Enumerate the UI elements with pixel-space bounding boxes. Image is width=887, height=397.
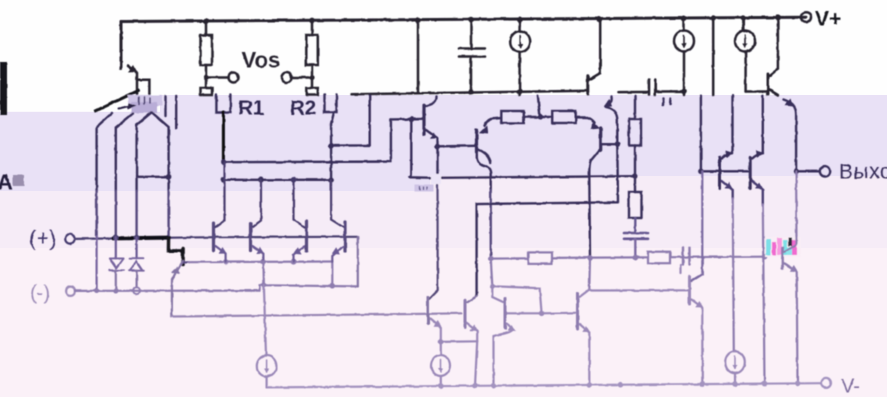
capacitor C1 xyxy=(470,20,473,48)
transistor Tb3 xyxy=(343,222,346,252)
transistor Tg xyxy=(422,105,425,135)
node 541-313 xyxy=(539,311,545,317)
transistor Ti right mirror xyxy=(576,117,595,122)
terminal minus xyxy=(66,287,75,296)
wire hook w1 xyxy=(97,113,112,191)
diode D2 xyxy=(136,238,138,259)
capacitor C3 xyxy=(634,218,636,233)
current source I1 xyxy=(518,19,521,31)
wire hook w3 xyxy=(137,112,152,191)
svg-text:V+: V+ xyxy=(815,8,841,31)
node 492-286 xyxy=(490,284,495,289)
wire second rail xyxy=(352,91,588,95)
transistor Tm-left xyxy=(475,130,478,152)
glitch color block xyxy=(765,237,801,257)
wire hook w2 xyxy=(116,114,133,192)
current source I2 xyxy=(682,18,685,30)
diode D1 xyxy=(115,238,117,259)
node 223-180 xyxy=(221,177,227,183)
node w4-176 xyxy=(166,174,172,180)
svg-text:А: А xyxy=(0,170,13,195)
artifact smudge blob xyxy=(128,95,162,106)
node 634-176 xyxy=(632,173,638,179)
wire hook 490 vertical xyxy=(477,154,491,191)
wire hook w4 xyxy=(153,113,169,191)
resistor Rm2 xyxy=(552,111,576,123)
transistor Q2 (x~600) xyxy=(599,19,602,73)
wire Td collector to Tf base xyxy=(589,290,688,291)
resistor R4 xyxy=(648,252,670,264)
node rail-R1 xyxy=(203,18,209,24)
wire rail-right segment xyxy=(618,91,648,94)
terminal Vos-right xyxy=(282,73,292,83)
node 293-180 xyxy=(291,177,297,183)
node 617-144 xyxy=(615,141,621,147)
node rail-713 xyxy=(710,15,716,21)
svg-text:Выход: Выход xyxy=(839,161,887,184)
node rail-598 xyxy=(596,16,602,22)
wire 589 vertical to Td xyxy=(588,258,591,290)
transistor Te (in glitch) xyxy=(781,248,784,268)
node rail-777 xyxy=(775,15,781,21)
transistor Tc2 xyxy=(492,286,503,302)
node rail-418 xyxy=(415,17,421,23)
node 492-258 xyxy=(488,256,494,262)
wire 617 down to y203 xyxy=(477,144,618,296)
transistor Tbl xyxy=(427,297,430,323)
node plus-w3 xyxy=(134,235,140,241)
wire top rail V+ xyxy=(121,17,806,68)
wire horizontal y162 xyxy=(223,119,391,162)
capacitor C2 remnant ticks xyxy=(662,99,665,105)
transistor Tout2 xyxy=(749,157,752,188)
wire y258 line xyxy=(491,257,765,259)
transistor Ta xyxy=(212,223,215,250)
transistor Q1 top-left xyxy=(128,66,137,94)
wire Tg base line y119 xyxy=(391,118,422,121)
svg-text:V-: V- xyxy=(841,376,860,397)
wire y341 segment xyxy=(441,340,477,343)
wire plus corner down xyxy=(357,237,359,286)
svg-text:(-): (-) xyxy=(30,283,50,305)
wire w1 lower xyxy=(95,236,97,291)
resistor Rv1 xyxy=(634,96,636,119)
terminal V- xyxy=(821,378,831,388)
node 331-146 xyxy=(328,143,334,149)
wire 411 vertical to B xyxy=(410,119,412,177)
terminal Vos-left xyxy=(229,73,239,83)
wire 762 vertical xyxy=(762,96,764,154)
node mirror-mid xyxy=(538,114,544,120)
node Tg-em-146 xyxy=(435,144,441,150)
resistor R1 xyxy=(216,95,230,113)
transistor Td xyxy=(576,294,579,330)
wire minus line xyxy=(75,285,358,291)
transistor Tmid black bar xyxy=(168,238,182,251)
node minus-w2 xyxy=(113,288,118,293)
wire 492 vertical below dot xyxy=(491,259,493,287)
node bus-294 xyxy=(291,259,297,265)
svg-text:R2: R2 xyxy=(290,97,316,120)
node 589-258 xyxy=(587,255,593,261)
node rail-cs3 xyxy=(740,15,746,21)
node rail-cap xyxy=(468,17,474,23)
wire mirror base y146 xyxy=(437,145,475,148)
current source I3 xyxy=(742,18,745,31)
wire 733 vertical xyxy=(733,199,734,352)
terminal output xyxy=(820,166,830,176)
resistor Rtop2 xyxy=(311,21,314,36)
svg-text:Vos: Vos xyxy=(242,48,281,73)
node Vos-left xyxy=(203,75,208,80)
current source I0 xyxy=(257,356,277,377)
wire Vos-left lead xyxy=(206,76,229,79)
transistor Q3 (x~768) xyxy=(746,90,767,93)
wire 796 vertical lower xyxy=(796,171,797,383)
wire to output terminal xyxy=(796,170,820,172)
node cap-rail2 xyxy=(468,90,474,96)
wire mirror mid up xyxy=(538,96,540,117)
node rail-R2 xyxy=(309,18,315,24)
wire R2 lead + loop xyxy=(331,112,334,180)
resistor Rtop1 xyxy=(205,21,208,35)
terminal plus xyxy=(65,234,74,243)
node Tg-base xyxy=(409,117,415,123)
terminal V+ xyxy=(801,12,811,22)
transistor Tb2 xyxy=(305,222,308,252)
node cs1-rail2 xyxy=(517,89,523,95)
node plus-w2 xyxy=(113,235,119,241)
wire out base y171 xyxy=(701,170,749,172)
wire 763 vertical xyxy=(763,205,765,384)
wire R1 black lead xyxy=(222,112,225,162)
wire base line y314 xyxy=(172,313,462,316)
transistor Tout1 xyxy=(718,157,721,188)
node minus-w1 xyxy=(94,288,99,293)
artifact black bar left edge xyxy=(0,62,7,115)
transistor Tc xyxy=(464,300,467,327)
transistor Tmid leads xyxy=(172,261,183,317)
node Vos-right xyxy=(309,75,314,80)
resistor R2 xyxy=(325,95,337,113)
node bus-Tb xyxy=(261,259,267,265)
wire plus line xyxy=(75,237,357,239)
node 764-257 xyxy=(762,254,768,260)
capacitor C2 xyxy=(648,80,651,95)
wire 730 vertical xyxy=(731,96,733,154)
wire plus thick black segment xyxy=(114,236,169,241)
capacitor C4 xyxy=(683,248,690,265)
wire emitter bus y262 xyxy=(189,260,332,263)
wire 418 vertical xyxy=(417,20,420,93)
node 440-341 xyxy=(438,339,443,344)
artifact diagonal scratch xyxy=(96,91,139,112)
svg-text:R1: R1 xyxy=(238,97,264,120)
node rail-cs2 xyxy=(681,16,687,22)
wire w3 elbow to w4 xyxy=(137,176,169,178)
node 636-258 xyxy=(633,255,639,261)
resistor Rm1 xyxy=(501,111,524,123)
current source I4 xyxy=(440,342,442,355)
current source I5 xyxy=(725,351,745,373)
wire 700 vertical xyxy=(700,96,702,172)
node rail-cs1 xyxy=(517,17,523,23)
wire horizontal B y178 xyxy=(410,176,635,178)
node rail dots xyxy=(438,383,444,389)
resistor Rv2 xyxy=(629,192,642,218)
transistor Tf xyxy=(688,277,691,304)
resistor R3 xyxy=(528,252,552,264)
node bus-Ta xyxy=(223,259,229,265)
wire horizontal y180 xyxy=(223,179,331,181)
node cs2-bottom xyxy=(681,89,687,95)
artifact white patch overlay xyxy=(415,175,442,192)
node R1-162 xyxy=(221,159,227,165)
wire 617 vertical xyxy=(606,97,612,107)
wire Vos-right lead xyxy=(292,76,313,79)
wire 492 to 539 jog xyxy=(492,286,541,313)
wire stub blob xyxy=(164,96,166,116)
transistor Tb xyxy=(249,223,252,250)
svg-text:(+): (+) xyxy=(29,226,57,251)
node minus-w3 (open) xyxy=(133,287,140,294)
node rail-265 elbow: cs0 xyxy=(262,262,265,286)
node 700-171 xyxy=(698,169,704,175)
wire V- rail xyxy=(267,383,821,387)
node output xyxy=(793,169,799,175)
node 261-180 xyxy=(258,177,264,183)
node 331-180 xyxy=(328,177,334,183)
wire 713 vertical xyxy=(712,18,715,95)
wire output hook 796 xyxy=(784,100,797,172)
wire 437 vertical (Tbl collector) xyxy=(430,178,438,299)
